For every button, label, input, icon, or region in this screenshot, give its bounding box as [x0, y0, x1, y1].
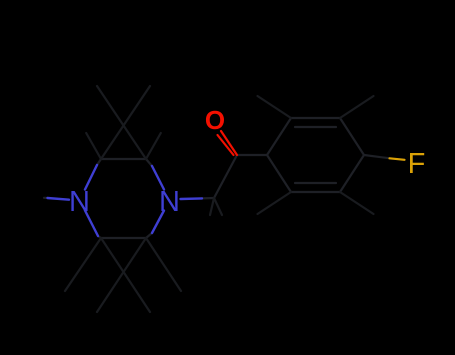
svg-text:F: F [408, 148, 426, 180]
svg-text:O: O [205, 105, 225, 135]
svg-text:N: N [69, 186, 90, 218]
svg-text:N: N [159, 186, 180, 218]
